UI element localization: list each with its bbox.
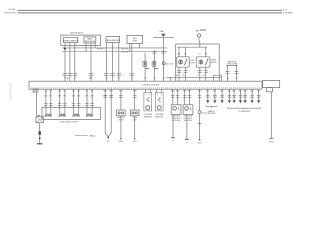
svg-text:WHT: WHT: [171, 90, 175, 92]
svg-text:YEL: YEL: [72, 90, 75, 92]
svg-text:YEL: YEL: [77, 90, 80, 92]
svg-text:GRN/WHT: GRN/WHT: [121, 51, 130, 53]
svg-text:G101: G101: [197, 142, 201, 144]
svg-text:SPEEDOMETER: SPEEDOMETER: [63, 40, 79, 42]
svg-text:MODULE: MODULE: [184, 120, 193, 122]
svg-text:SENSOR: SENSOR: [144, 117, 153, 119]
svg-text:YEL: YEL: [44, 90, 47, 92]
svg-text:C6: C6: [199, 54, 201, 56]
svg-text:G101: G101: [269, 142, 275, 144]
svg-text:RELAY: RELAY: [211, 61, 218, 64]
svg-text:CHECK: CHECK: [118, 119, 125, 121]
svg-text:D4: D4: [205, 54, 207, 56]
svg-text:FUEL INJECTORS: FUEL INJECTORS: [60, 121, 78, 123]
svg-text:15A: 15A: [159, 30, 163, 33]
svg-text:INDICATOR: INDICATOR: [85, 40, 96, 43]
svg-text:BLK: BLK: [206, 90, 209, 92]
svg-text:SHLD: SHLD: [90, 136, 96, 138]
svg-text:G401: G401: [133, 141, 137, 143]
svg-text:UNIT: UNIT: [132, 41, 137, 43]
svg-text:BLK: BLK: [221, 90, 224, 92]
svg-text:C2: C2: [197, 75, 199, 77]
svg-text:YEL: YEL: [63, 90, 66, 92]
svg-text:WHT/BLU: WHT/BLU: [96, 48, 105, 50]
svg-text:M/T: M/T: [196, 30, 200, 32]
svg-text:YEL: YEL: [91, 90, 94, 92]
svg-text:BLK: BLK: [251, 90, 254, 92]
svg-text:B: B: [161, 94, 162, 96]
svg-text:GROUND: GROUND: [207, 113, 216, 115]
svg-text:No.1 INJ: No.1 INJ: [45, 116, 52, 118]
svg-text:BLK: BLK: [228, 90, 231, 92]
svg-text:BLK: BLK: [233, 90, 236, 92]
svg-text:WHT: WHT: [183, 90, 187, 92]
svg-text:GAUGE ASSY: GAUGE ASSY: [70, 32, 84, 35]
svg-text:TO SENSORS: TO SENSORS: [238, 111, 251, 113]
svg-text:No.2 INJ: No.2 INJ: [59, 116, 66, 118]
svg-text:BLK: BLK: [244, 90, 247, 92]
svg-text:A/C SIG: A/C SIG: [166, 62, 174, 65]
svg-text:D6: D6: [203, 75, 205, 77]
svg-text:YEL: YEL: [49, 90, 52, 92]
svg-text:BLK: BLK: [213, 90, 216, 92]
svg-text:PUMP: PUMP: [190, 62, 196, 64]
svg-text:WHT: WHT: [176, 90, 180, 92]
svg-text:B: B: [149, 94, 150, 96]
svg-text:HOT IN ON: HOT IN ON: [4, 13, 16, 15]
svg-text:B1: B1: [184, 54, 186, 56]
svg-text:B3: B3: [183, 75, 185, 77]
svg-text:BLK/YEL: BLK/YEL: [121, 48, 128, 50]
svg-text:WHT: WHT: [188, 90, 192, 92]
svg-text:No.4 INJ: No.4 INJ: [86, 116, 93, 118]
svg-text:CONTROL MODULE: CONTROL MODULE: [142, 84, 161, 86]
svg-text:F 23 MAIN: F 23 MAIN: [283, 12, 293, 15]
svg-text:TACHOMETER: TACHOMETER: [106, 39, 120, 42]
svg-text:eAutoRepair: eAutoRepair: [9, 81, 13, 101]
svg-text:HOT ALL: HOT ALL: [8, 8, 15, 11]
svg-text:YEL: YEL: [58, 90, 61, 92]
svg-text:MODULE: MODULE: [172, 120, 181, 122]
svg-text:BLK: BLK: [257, 90, 260, 92]
svg-text:G401: G401: [119, 141, 123, 143]
svg-text:BLK: BLK: [239, 90, 242, 92]
svg-text:YEL: YEL: [85, 90, 88, 92]
svg-text:SENSOR: SENSOR: [155, 117, 164, 119]
svg-text:No.3 INJ: No.3 INJ: [72, 116, 79, 118]
